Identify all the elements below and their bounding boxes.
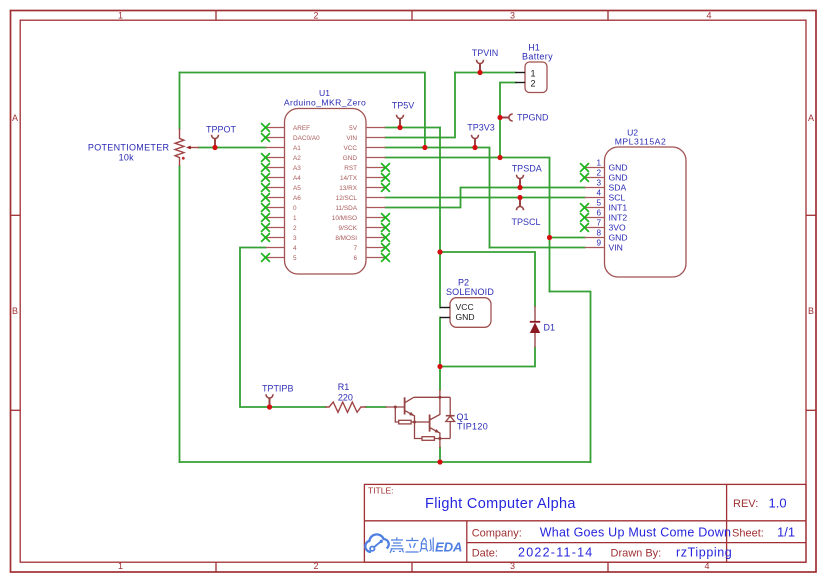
svg-text:1: 1 — [596, 159, 601, 168]
svg-text:3: 3 — [510, 11, 515, 21]
svg-text:3: 3 — [293, 235, 297, 242]
svg-text:Drawn By:: Drawn By: — [611, 548, 662, 560]
no-connect X marks U1 right pins — [381, 163, 390, 262]
wire VCC row U1.VCC to corner — [386, 148, 490, 248]
svg-text:TP5V: TP5V — [392, 101, 415, 111]
test point TPPOT — [206, 125, 237, 148]
wire solenoid loop top — [440, 252, 535, 306]
no-connect X marks U2 pins 1 2 5 6 7 — [580, 163, 589, 232]
wire VIN row U1.VIN to corner — [386, 73, 456, 138]
wire pot bottom to GND rail — [179, 166, 181, 462]
svg-text:5V: 5V — [349, 125, 358, 132]
internal resistor RE branch — [415, 422, 423, 439]
svg-text:1: 1 — [118, 11, 123, 21]
svg-text:TIP120: TIP120 — [457, 422, 488, 432]
test point TPVIN — [472, 48, 499, 73]
svg-text:REV:: REV: — [733, 498, 758, 510]
svg-text:A4: A4 — [293, 175, 301, 182]
junction TPSDA — [517, 185, 522, 190]
svg-text:5: 5 — [293, 255, 297, 262]
svg-text:D1: D1 — [544, 323, 556, 333]
wire GND bottom rail — [180, 461, 591, 463]
svg-text:4: 4 — [706, 11, 711, 21]
svg-text:TPTIPB: TPTIPB — [262, 384, 294, 394]
svg-text:TPSCL: TPSCL — [511, 217, 540, 227]
svg-text:A3: A3 — [293, 165, 301, 172]
svg-text:TP3V3: TP3V3 — [467, 123, 495, 133]
svg-text:SOLENOID: SOLENOID — [446, 287, 494, 297]
svg-text:A: A — [808, 113, 814, 123]
svg-text:5: 5 — [596, 199, 601, 208]
wire pot top lead — [179, 73, 181, 129]
svg-text:Arduino_MKR_Zero: Arduino_MKR_Zero — [284, 98, 366, 108]
junction solenoid loop top — [437, 249, 442, 254]
wire VCC left loop top — [180, 73, 425, 148]
svg-text:220: 220 — [338, 393, 353, 403]
svg-text:12/SCL: 12/SCL — [336, 195, 358, 202]
T2 collector — [430, 397, 440, 420]
svg-text:2: 2 — [313, 561, 318, 571]
junction TPGND — [497, 115, 502, 120]
svg-text:9/SCK: 9/SCK — [339, 225, 358, 232]
internal resistor RE — [422, 437, 434, 441]
junction TPVIN — [477, 70, 482, 75]
svg-text:Flight Computer Alpha: Flight Computer Alpha — [425, 496, 576, 512]
component Q1 TIP120 — [385, 390, 488, 448]
svg-text:INT1: INT1 — [609, 203, 628, 213]
svg-text:A: A — [12, 113, 18, 123]
svg-text:8/MOSI: 8/MOSI — [335, 235, 357, 242]
svg-text:TPSDA: TPSDA — [512, 164, 542, 174]
wire D1 anode to loop bottom — [440, 348, 535, 367]
svg-text:What Goes Up Must Come Down: What Goes Up Must Come Down — [540, 526, 732, 540]
junction TP5V — [397, 125, 402, 130]
test point TPSDA — [512, 164, 542, 188]
svg-text:14/TX: 14/TX — [340, 175, 358, 182]
wire R1 to Q1 base — [366, 406, 385, 408]
junction VCC loop — [422, 145, 427, 150]
svg-text:POTENTIOMETER: POTENTIOMETER — [88, 143, 170, 153]
svg-text:R1: R1 — [338, 382, 350, 392]
svg-text:10/MISO: 10/MISO — [332, 215, 357, 222]
svg-text:VIN: VIN — [609, 243, 623, 253]
svg-text:Sheet:: Sheet: — [732, 528, 764, 540]
test point TPSCL — [511, 198, 540, 228]
wire loop bottom to Q1 collector — [439, 367, 441, 390]
svg-text:RST: RST — [344, 165, 357, 172]
component U1 Arduino_MKR_Zero — [266, 88, 386, 274]
svg-text:GND: GND — [343, 155, 358, 162]
svg-text:1: 1 — [293, 215, 297, 222]
svg-text:4: 4 — [596, 189, 601, 198]
svg-text:SCL: SCL — [609, 193, 626, 203]
svg-text:VIN: VIN — [346, 135, 357, 142]
svg-text:2022-11-14: 2022-11-14 — [518, 546, 594, 560]
svg-text:2: 2 — [596, 169, 601, 178]
component P2 SOLENOID — [440, 278, 494, 328]
component H1 Battery — [515, 43, 553, 93]
test point TPGND — [500, 113, 549, 123]
test point TP5V — [392, 101, 415, 128]
no-connect X marks U1 left pins — [261, 123, 270, 262]
glyph chuang — [420, 537, 433, 551]
wire SDA U1.11/SDA to U2 pin 3 — [386, 188, 585, 208]
wire pot wiper to U1.A1 — [199, 147, 266, 149]
svg-text:10k: 10k — [119, 153, 135, 163]
svg-text:3: 3 — [596, 179, 601, 188]
wire battery pin 2 to TPGND vertical — [500, 83, 515, 158]
svg-text:AREF: AREF — [293, 125, 310, 132]
svg-text:Company:: Company: — [472, 528, 522, 540]
wire solenoid VCC branch — [439, 252, 441, 308]
svg-text:8: 8 — [596, 229, 601, 238]
wire Q1 emitter to GND rail — [439, 448, 441, 463]
svg-text:4: 4 — [293, 245, 297, 252]
svg-text:3VO: 3VO — [609, 223, 627, 233]
svg-text:6: 6 — [353, 255, 357, 262]
wire GND branch to U2 pin 8 — [550, 237, 585, 239]
top rail — [414, 396, 450, 398]
svg-text:VCC: VCC — [456, 302, 474, 312]
junction TP3V3 — [472, 145, 477, 150]
glyph li — [406, 538, 419, 553]
junction TPPOT — [212, 145, 217, 150]
svg-text:7: 7 — [596, 219, 601, 228]
wire U1 pin 4 to TPTIPB row — [240, 248, 325, 408]
svg-text:6: 6 — [596, 209, 601, 218]
component R1 220 resistor — [325, 382, 366, 412]
internal junction dots — [394, 396, 442, 440]
wire GND row U1.GND to corner — [386, 158, 550, 292]
svg-text:9: 9 — [596, 239, 601, 248]
svg-text:P2: P2 — [458, 278, 469, 288]
transistor T2 base bar — [429, 415, 431, 432]
test point TP3V3 — [467, 123, 495, 148]
svg-text:A6: A6 — [293, 195, 301, 202]
emitter pin — [439, 439, 441, 448]
svg-text:2: 2 — [531, 79, 536, 89]
component POTENTIOMETER 10k — [88, 129, 199, 167]
collector pin — [439, 390, 441, 398]
wire 3V3 to U2 pin 9 VIN — [490, 247, 585, 249]
svg-text:GND: GND — [609, 163, 628, 173]
svg-text:Battery: Battery — [522, 52, 553, 62]
svg-text:2: 2 — [313, 11, 318, 21]
svg-text:TPPOT: TPPOT — [206, 125, 237, 135]
svg-text:VCC: VCC — [344, 145, 358, 152]
svg-text:GND: GND — [609, 173, 628, 183]
internal diode — [449, 397, 451, 415]
svg-text:1.0: 1.0 — [769, 496, 787, 511]
svg-text:B: B — [12, 306, 18, 316]
svg-text:13/RX: 13/RX — [339, 185, 357, 192]
junction TPTIPB — [267, 404, 272, 409]
wire solenoid GND branch down — [439, 318, 441, 367]
junction TPSCL — [517, 195, 522, 200]
base pin — [385, 406, 404, 408]
svg-text:A1: A1 — [293, 145, 301, 152]
EasyEDA logo — [365, 534, 462, 554]
svg-text:EDA: EDA — [435, 540, 462, 555]
wire 5V vertical down to solenoid loop — [439, 128, 441, 253]
svg-text:rzTipping: rzTipping — [676, 546, 732, 560]
wire SCL U1.12/SCL to U2 pin 4 — [386, 197, 585, 199]
svg-text:1: 1 — [531, 69, 536, 79]
svg-text:DAC0/A0: DAC0/A0 — [293, 135, 320, 142]
svg-text:0: 0 — [293, 205, 297, 212]
svg-text:INT2: INT2 — [609, 213, 628, 223]
junction U2 pin8 — [547, 235, 552, 240]
svg-text:TPGND: TPGND — [517, 113, 549, 123]
transistor T1 base bar — [404, 397, 406, 414]
svg-text:A5: A5 — [293, 185, 301, 192]
svg-text:U1: U1 — [319, 88, 330, 98]
svg-text:1: 1 — [118, 561, 123, 571]
T1 emitter with arrow — [405, 410, 415, 422]
svg-text:TITLE:: TITLE: — [368, 486, 394, 496]
svg-text:GND: GND — [456, 312, 475, 322]
svg-text:Q1: Q1 — [457, 412, 469, 422]
component U2 MPL3115A2 — [585, 128, 687, 277]
junction emitter GND rail — [437, 459, 442, 464]
svg-text:2: 2 — [293, 225, 297, 232]
svg-text:GND: GND — [609, 233, 628, 243]
base branch to internal resistor — [395, 407, 398, 422]
svg-text:SDA: SDA — [609, 183, 627, 193]
wire TPVIN to battery pin 1 — [455, 72, 515, 74]
node to T2 base — [415, 421, 430, 423]
svg-text:TPVIN: TPVIN — [472, 48, 499, 58]
junction solenoid loop bottom — [437, 364, 442, 369]
svg-text:B: B — [808, 306, 814, 316]
svg-text:A2: A2 — [293, 155, 301, 162]
svg-text:11/SDA: 11/SDA — [335, 205, 357, 212]
wire GND jog to right vertical — [550, 292, 591, 463]
T1 collector — [405, 397, 414, 403]
svg-text:1/1: 1/1 — [777, 525, 795, 540]
title block — [364, 484, 806, 562]
wire 5V row U1.5V to corner — [386, 127, 441, 129]
T2 emitter with arrow — [430, 428, 440, 439]
component D1 diode — [530, 306, 555, 348]
svg-text:MPL3115A2: MPL3115A2 — [615, 137, 667, 147]
glyph jia — [390, 537, 404, 553]
junction GND row — [497, 155, 502, 160]
test point TPTIPB — [262, 384, 294, 408]
internal resistor RB — [399, 420, 411, 424]
svg-text:Date:: Date: — [472, 548, 498, 560]
svg-text:7: 7 — [353, 245, 357, 252]
